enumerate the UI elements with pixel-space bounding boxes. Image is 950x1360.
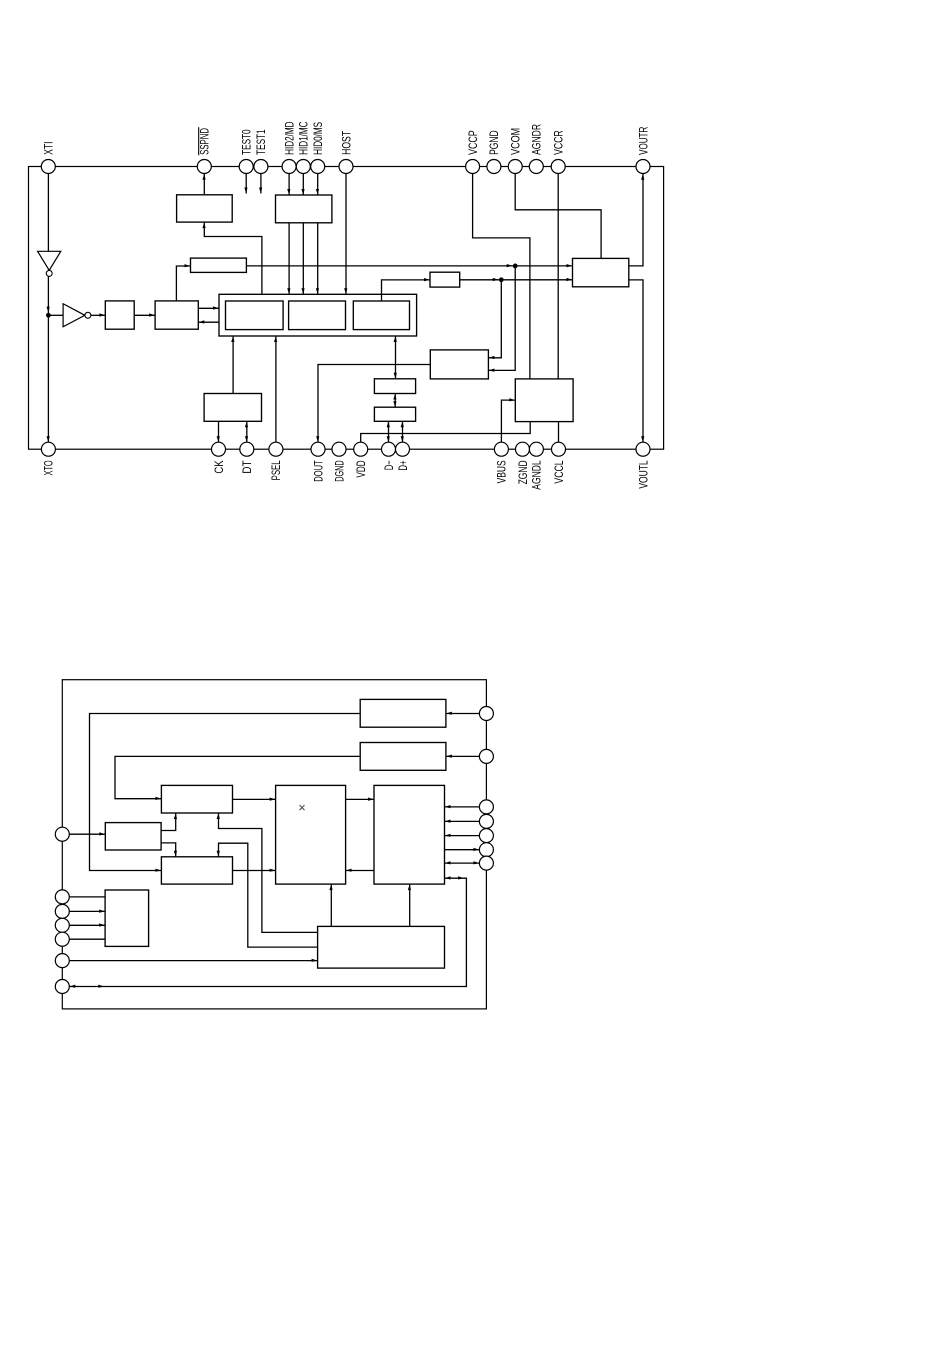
wire multiplier to output block xyxy=(346,798,374,801)
node left pin 2 xyxy=(55,890,69,904)
node left pin 7 xyxy=(55,980,69,994)
wire serial feedback to left pin (bidirectional) xyxy=(69,876,466,988)
wire left pin a to input block xyxy=(69,896,105,898)
regulator block xyxy=(515,379,573,422)
pin VDD xyxy=(354,442,368,477)
interface block 2 (second top right) xyxy=(360,743,446,771)
wire left pin b to input block xyxy=(69,910,105,913)
svg-text:AGNDR: AGNDR xyxy=(530,124,544,155)
clock buffer inverter (right) xyxy=(63,304,91,327)
pin TEST1 xyxy=(254,129,268,173)
clock control block xyxy=(191,258,247,272)
node left pin 3 xyxy=(55,904,69,918)
wire USB engine to registers xyxy=(394,336,397,379)
wire HOST to registers xyxy=(344,167,347,295)
pin VCCL xyxy=(552,442,566,483)
svg-text:PSEL: PSEL xyxy=(269,460,283,480)
pin PGND xyxy=(487,130,501,173)
wire right pin 2 to interface block 2 xyxy=(446,755,480,758)
wire HID1/MC to HID input block xyxy=(301,167,304,196)
USB transceiver block xyxy=(374,407,415,421)
register cell 2 xyxy=(289,301,346,330)
svg-text:DGND: DGND xyxy=(332,460,346,481)
wire divider to multiplier clock xyxy=(329,884,332,926)
node left pin 4 xyxy=(55,918,69,932)
pin AGNDR xyxy=(529,124,543,174)
node right pin 6 xyxy=(479,843,493,857)
divider block (bottom) xyxy=(318,926,445,968)
wire VCCR to regulator xyxy=(557,167,559,379)
wire HID input block to registers (bit1) xyxy=(301,223,304,294)
svg-text:VBUS: VBUS xyxy=(495,460,509,483)
interface block 1 (top right) xyxy=(360,699,446,727)
wire control registers to timing generator xyxy=(198,320,219,323)
pin CK xyxy=(212,442,226,473)
svg-text:XTI: XTI xyxy=(42,142,56,155)
wire PSEL to registers xyxy=(274,336,277,442)
wire serial interface to registers xyxy=(231,336,234,394)
wire left pin c to input block xyxy=(69,923,105,926)
wire output block to right pin 7 (bidirectional) xyxy=(445,861,480,864)
wire divider to comparator B feedback xyxy=(217,843,318,947)
timing generator block xyxy=(155,301,198,329)
svg-text:TEST0: TEST0 xyxy=(240,129,254,155)
pin VBUS xyxy=(494,442,508,483)
pin SSPND xyxy=(197,127,211,173)
wire output block to right pin 6 xyxy=(445,848,480,851)
wire headphone amp to VOUTL xyxy=(629,280,645,442)
wire transceiver to D- xyxy=(387,421,390,442)
USB SIE block xyxy=(374,379,415,394)
wire suspend control to SSPND pin xyxy=(202,167,205,195)
wire inverter to divider block xyxy=(91,313,105,316)
chip boundary (top diagram) xyxy=(29,167,664,450)
wire HID input block to registers (bit2) xyxy=(287,223,290,294)
control registers outer block xyxy=(219,294,417,336)
pin HID2/MD xyxy=(282,121,296,173)
pin HID0/MS xyxy=(311,122,325,174)
register cell 1 xyxy=(226,301,284,330)
node right pin 7 xyxy=(479,856,493,870)
wire right pin 4 to output block xyxy=(445,820,480,823)
wire timing generator to control registers xyxy=(198,306,219,309)
wire VBUS to regulator xyxy=(501,398,515,442)
wire HID input block to registers (bit0) xyxy=(316,223,319,294)
node right pin 5 xyxy=(479,829,493,843)
wire HID2/MD to HID input block xyxy=(287,167,290,196)
wire oscillator to XTO xyxy=(47,276,50,442)
suspend control block xyxy=(177,195,233,222)
pin XTO xyxy=(41,442,55,475)
svg-text:HOST: HOST xyxy=(339,130,353,154)
pin PSEL xyxy=(269,442,283,480)
pin DT xyxy=(240,442,254,473)
chip boundary (lower diagram) xyxy=(62,680,486,1009)
svg-text:VCOM: VCOM xyxy=(509,128,523,155)
junction clock R node xyxy=(513,264,518,269)
wire VCOM to headphone amp xyxy=(515,167,601,259)
junction oscillator node xyxy=(46,313,51,318)
pin VOUTL xyxy=(636,442,650,488)
wire interface block 2 to phase comparator A xyxy=(115,756,360,800)
svg-text:DT: DT xyxy=(240,460,254,474)
node right pin 2 xyxy=(479,749,493,763)
svg-text:VOUTL: VOUTL xyxy=(636,460,650,488)
wire right pin 5 to output block xyxy=(445,834,480,837)
wire clock control to headphone amp (clock R) xyxy=(246,264,572,267)
mixer control block xyxy=(430,272,460,287)
junction mixer node xyxy=(499,277,504,282)
wire register 3 to mixer control xyxy=(382,278,431,301)
phase comparator B block xyxy=(161,857,232,884)
wire serial interface to DT xyxy=(245,421,248,442)
pin XTI xyxy=(41,142,55,174)
wire right pin 3 to output block xyxy=(445,805,480,808)
node right pin 1 xyxy=(479,707,493,721)
svg-text:HID0/MS: HID0/MS xyxy=(311,122,325,155)
svg-text:ZGND: ZGND xyxy=(516,460,530,484)
input block (bottom left) xyxy=(105,890,149,946)
reference block (left) xyxy=(105,823,161,850)
phase comparator A block xyxy=(161,785,232,813)
pin TEST0 xyxy=(239,129,253,173)
oscillator output inverter (down) xyxy=(38,251,61,276)
wire interface block 1 to phase comparator B xyxy=(90,714,361,872)
wire VCCP to regulator xyxy=(473,167,530,379)
wire VDD to regulator xyxy=(361,422,531,443)
wire right pin 1 to interface block 1 xyxy=(446,712,480,715)
wire mixer control to headphone amp xyxy=(460,278,573,281)
wire TEST1 stub xyxy=(259,167,262,194)
svg-text:SSPND: SSPND xyxy=(198,128,212,155)
wire reference block to comparator A xyxy=(161,813,177,831)
svg-text:CK: CK xyxy=(212,460,226,473)
svg-text:D+: D+ xyxy=(396,460,410,470)
node right pin 4 xyxy=(479,814,493,828)
svg-text:TEST1: TEST1 xyxy=(254,129,268,155)
wire HID0/MS to HID input block xyxy=(316,167,319,196)
pin VCCP xyxy=(466,130,480,173)
node right pin 3 xyxy=(479,800,493,814)
label multiplier x xyxy=(300,805,304,809)
svg-text:PGND: PGND xyxy=(487,130,501,155)
svg-text:VDD: VDD xyxy=(354,460,368,477)
node left pin 6 xyxy=(55,954,69,968)
svg-text:VCCR: VCCR xyxy=(552,130,566,155)
wire divider to output block clock xyxy=(408,884,411,926)
wire left clock pin to divider xyxy=(69,959,317,962)
wire divider to timing generator xyxy=(134,313,155,316)
pin DGND xyxy=(332,442,346,482)
wire output control to DOUT xyxy=(316,365,430,443)
serial interface block xyxy=(204,394,261,422)
svg-text:XTO: XTO xyxy=(42,460,56,475)
divider block xyxy=(105,301,134,329)
pin VCOM xyxy=(508,128,522,174)
wire SIE to transceiver xyxy=(393,394,396,408)
wire control registers to suspend control xyxy=(202,222,262,294)
wire headphone amp to VOUTR xyxy=(629,174,645,266)
wire junction to clock inverter xyxy=(48,314,63,316)
svg-text:VCCL: VCCL xyxy=(552,460,566,483)
wire VCCL to regulator xyxy=(558,422,560,443)
wire divider to comparator A feedback xyxy=(217,813,318,932)
pin D&#8722; xyxy=(382,442,396,470)
wire mixer node to output control xyxy=(488,280,501,359)
wire comparator B to multiplier xyxy=(233,869,276,872)
node left pin 1 xyxy=(55,827,69,841)
svg-text:AGNDL: AGNDL xyxy=(530,460,544,490)
multiplier block xyxy=(276,785,346,884)
pin AGNDL xyxy=(529,442,543,490)
wire serial interface to CK xyxy=(217,421,220,442)
svg-text:HID1/MC: HID1/MC xyxy=(297,121,311,155)
wire output block to multiplier xyxy=(346,869,374,872)
wire XTI to oscillator input xyxy=(47,167,49,252)
svg-text:VOUTR: VOUTR xyxy=(636,126,650,154)
wire left pin d to input block xyxy=(69,938,105,940)
output block (right) xyxy=(374,785,445,884)
wire TEST0 stub xyxy=(244,167,247,194)
pin HID1/MC xyxy=(296,121,310,173)
pin ZGND xyxy=(516,442,530,484)
wire timing generator to clock control xyxy=(176,264,190,301)
wire left pin to reference block xyxy=(69,832,105,835)
HID input block xyxy=(276,195,332,223)
svg-text:VCCP: VCCP xyxy=(466,130,480,155)
svg-text:D−: D− xyxy=(382,460,396,470)
pin VOUTR xyxy=(636,126,650,173)
svg-text:HID2/MD: HID2/MD xyxy=(282,121,296,155)
wire comparator A to multiplier xyxy=(233,798,276,801)
pin DOUT xyxy=(311,442,325,482)
pin D+ xyxy=(396,442,410,470)
pin HOST xyxy=(339,130,353,173)
wire reference block to comparator B xyxy=(161,843,177,857)
pin VCCR xyxy=(551,130,565,173)
headphone amp block xyxy=(573,258,629,286)
output control block xyxy=(430,350,488,379)
svg-text:DOUT: DOUT xyxy=(311,460,325,482)
node left pin 5 xyxy=(55,932,69,946)
wire clock R node to output control xyxy=(488,266,515,372)
register cell 3 xyxy=(353,301,409,330)
wire transceiver to D+ xyxy=(401,421,404,442)
